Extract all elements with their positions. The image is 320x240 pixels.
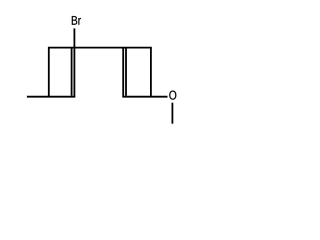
inner line of right C=C double bond [125,48,127,95]
atom label O [169,91,176,100]
bond CH3-C (bottom left tail) and C-C bottom edge of left ring [27,96,75,98]
atom label Br [72,16,81,25]
chemical structure: brominated bis(cyclobutene) with methoxy group [0,0,206,141]
bond C-Br plus main line of left C=C double bond [73,28,75,96]
inner line of left C=C double bond [71,48,73,95]
bond left vertical C-C of left ring [48,48,50,97]
bond right vertical C-C of right ring [150,48,152,97]
bond O-CH3 [171,103,173,124]
bond bottom edge of right ring and C-O bond [122,96,167,98]
bond top horizontal chain C-C-C-C [48,47,152,49]
main line of right C=C double bond [122,48,124,97]
